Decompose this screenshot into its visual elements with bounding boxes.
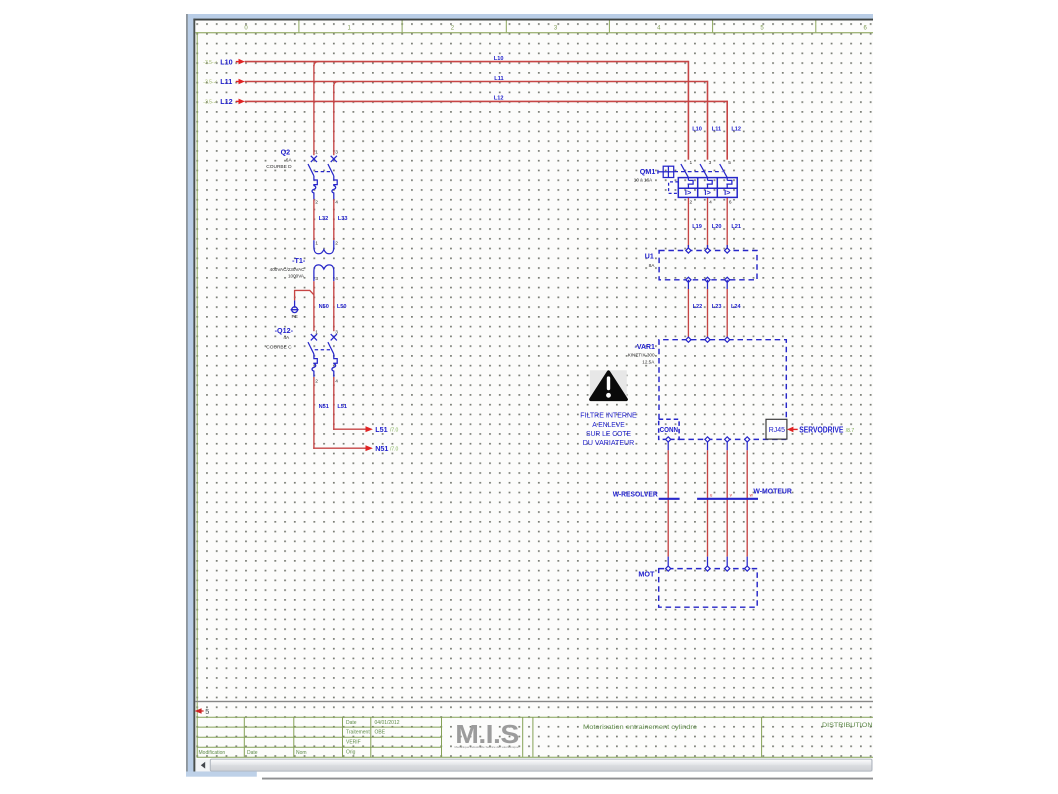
svg-text:4A: 4A bbox=[283, 335, 290, 341]
wire L12 drop to QM1 bbox=[726, 101, 728, 160]
svg-text:Date: Date bbox=[346, 720, 357, 726]
svg-text:8A: 8A bbox=[649, 263, 656, 269]
svg-text:L33: L33 bbox=[338, 216, 348, 222]
svg-text:4: 4 bbox=[335, 379, 338, 385]
motor circuit breaker QM1 bbox=[634, 160, 737, 206]
svg-text:-T1-: -T1- bbox=[292, 256, 306, 265]
svg-text:400VAC/230VAC: 400VAC/230VAC bbox=[270, 267, 305, 272]
svg-text:L51: L51 bbox=[375, 425, 387, 434]
M.I.S logo bbox=[455, 721, 520, 749]
svg-text:2: 2 bbox=[315, 379, 318, 385]
svg-text:1: 1 bbox=[690, 160, 693, 166]
svg-text:A ENLEVE: A ENLEVE bbox=[592, 420, 625, 429]
wire L23 bbox=[707, 280, 709, 289]
svg-text:L12: L12 bbox=[731, 126, 741, 132]
svg-text:4: 4 bbox=[709, 200, 712, 206]
svg-text:4: 4 bbox=[335, 276, 338, 282]
svg-text:I>: I> bbox=[685, 188, 692, 197]
section marker arrow 5 bbox=[195, 707, 210, 716]
svg-text:COURBE D: COURBE D bbox=[266, 164, 292, 170]
svg-text:L21: L21 bbox=[731, 224, 741, 230]
svg-text:Nom: Nom bbox=[296, 750, 307, 756]
svg-text:L11: L11 bbox=[712, 126, 721, 132]
svg-text:-3.5-✓: -3.5-✓ bbox=[203, 60, 217, 66]
svg-text:Traitement: Traitement bbox=[346, 730, 370, 736]
ground PE bbox=[291, 300, 299, 320]
svg-text:6A: 6A bbox=[286, 157, 293, 163]
wire motor U bbox=[708, 441, 713, 566]
wire L24 bbox=[726, 280, 728, 289]
svg-text:W-RESOLVER: W-RESOLVER bbox=[613, 490, 659, 499]
wire resolver feed bbox=[667, 442, 669, 566]
wire Q2 pole1 top bbox=[313, 65, 315, 155]
svg-text:1: 1 bbox=[315, 150, 318, 156]
svg-text:OBE: OBE bbox=[375, 730, 386, 736]
svg-text:5: 5 bbox=[205, 707, 209, 716]
wire Q2 pole2 top bbox=[333, 85, 335, 155]
wire L22 bbox=[687, 280, 689, 289]
svg-text:L11: L11 bbox=[494, 76, 503, 82]
wire L21 bbox=[726, 198, 728, 248]
wire L33 bbox=[333, 199, 335, 240]
svg-text:L24: L24 bbox=[731, 304, 742, 310]
wire L50 bbox=[333, 281, 335, 331]
wire L51 out bbox=[333, 425, 398, 434]
svg-text:QM1: QM1 bbox=[640, 167, 656, 176]
svg-text:/8.7: /8.7 bbox=[846, 428, 855, 434]
svg-text:2: 2 bbox=[315, 199, 318, 205]
servo drive VAR1 bbox=[628, 337, 787, 439]
svg-text:Motorisation entrainement cyli: Motorisation entrainement cylindre bbox=[583, 725, 698, 731]
svg-text:VERIF: VERIF bbox=[346, 740, 361, 746]
svg-text:L50: L50 bbox=[337, 304, 347, 310]
wire branch L11 to Q2 bbox=[334, 82, 339, 87]
svg-text:L10: L10 bbox=[692, 126, 702, 132]
transformer T1 bbox=[270, 240, 339, 282]
wire N51 bbox=[313, 377, 315, 449]
cable W-RESOLVER bbox=[613, 490, 680, 499]
svg-text:-3.5-✓: -3.5-✓ bbox=[203, 80, 217, 86]
cable W-MOTEUR bbox=[697, 486, 792, 498]
svg-text:Modification: Modification bbox=[199, 750, 226, 756]
breaker Q2 bbox=[266, 148, 338, 206]
svg-text:Mecanique Industrielle Servi: Mecanique Industrielle Service de l elec… bbox=[455, 745, 519, 749]
svg-text:-VAR1: -VAR1 bbox=[635, 342, 655, 351]
svg-text:L11: L11 bbox=[220, 77, 232, 86]
breaker Q12 bbox=[266, 326, 338, 385]
svg-text:DISTRIBUTION: DISTRIBUTION bbox=[822, 722, 873, 729]
svg-text:L19: L19 bbox=[692, 224, 702, 230]
node SERVODRIVE bbox=[787, 425, 854, 434]
svg-text:5: 5 bbox=[728, 160, 731, 166]
wire L20 bbox=[707, 198, 709, 248]
wire motor V bbox=[727, 441, 732, 566]
connector RJ45 bbox=[766, 419, 787, 439]
node L10 bus bbox=[203, 56, 688, 66]
svg-text:N51: N51 bbox=[375, 444, 388, 453]
svg-text:N50: N50 bbox=[319, 304, 329, 310]
wire L10 drop to QM1 bbox=[687, 61, 689, 160]
svg-text:DU VARIATEUR: DU VARIATEUR bbox=[583, 438, 635, 447]
svg-text:N51: N51 bbox=[319, 404, 329, 410]
svg-text:1000VA: 1000VA bbox=[288, 273, 305, 278]
wire L11 drop to QM1 bbox=[707, 81, 709, 160]
svg-text:10 à 16A: 10 à 16A bbox=[634, 178, 653, 183]
svg-text:6: 6 bbox=[729, 200, 732, 206]
motor MOT bbox=[638, 566, 757, 607]
svg-text:Date: Date bbox=[247, 750, 258, 756]
svg-text:U1: U1 bbox=[645, 254, 654, 261]
svg-text:2: 2 bbox=[335, 241, 338, 247]
svg-text:L12: L12 bbox=[494, 96, 504, 102]
svg-text:12.5A: 12.5A bbox=[642, 360, 655, 365]
wire N50 bbox=[313, 281, 315, 331]
svg-text:L22: L22 bbox=[693, 304, 703, 310]
wire motor W bbox=[747, 441, 753, 566]
ruler band bbox=[195, 21, 873, 34]
wire L32 bbox=[313, 199, 315, 240]
node L12 bus bbox=[203, 96, 727, 107]
svg-text:3: 3 bbox=[315, 276, 318, 282]
svg-text:KINETIX 300: KINETIX 300 bbox=[628, 352, 655, 357]
sheet inner bottom line bbox=[195, 701, 873, 702]
svg-text:-Q12-: -Q12- bbox=[275, 326, 294, 335]
svg-text:L51: L51 bbox=[337, 404, 347, 410]
warning note text bbox=[580, 411, 637, 447]
svg-text:L10: L10 bbox=[220, 57, 232, 66]
wire N51 out bbox=[313, 444, 398, 453]
svg-text:04/01/2012: 04/01/2012 bbox=[375, 720, 400, 726]
svg-text:I>: I> bbox=[724, 188, 731, 197]
svg-text:1: 1 bbox=[315, 241, 318, 247]
svg-text:-3.5-✓: -3.5-✓ bbox=[203, 100, 217, 106]
svg-text:/7.0: /7.0 bbox=[390, 428, 399, 434]
svg-text:CONN: CONN bbox=[660, 427, 678, 434]
svg-text:SERVODRIVE: SERVODRIVE bbox=[799, 425, 844, 434]
svg-text:RJ45: RJ45 bbox=[769, 425, 785, 434]
svg-text:/7.0: /7.0 bbox=[390, 447, 399, 453]
svg-text:2: 2 bbox=[690, 200, 693, 206]
svg-text:L20: L20 bbox=[712, 224, 722, 230]
svg-text:L32: L32 bbox=[319, 216, 329, 222]
svg-text:3: 3 bbox=[335, 150, 338, 156]
svg-text:MOT: MOT bbox=[638, 570, 654, 579]
title block bbox=[197, 717, 873, 757]
connector CONN bbox=[659, 419, 679, 442]
svg-text:L23: L23 bbox=[712, 304, 722, 310]
warning sign bbox=[590, 370, 627, 401]
svg-text:SUR LE COTE: SUR LE COTE bbox=[586, 429, 631, 438]
svg-text:W-MOTEUR: W-MOTEUR bbox=[753, 486, 792, 495]
svg-text:Orig: Orig bbox=[346, 750, 356, 756]
wire L19 bbox=[687, 198, 689, 248]
svg-text:I>: I> bbox=[704, 188, 711, 197]
wire to PE bbox=[295, 290, 314, 300]
svg-text:PE: PE bbox=[291, 314, 297, 320]
wire L51 bbox=[333, 377, 335, 430]
svg-text:L10: L10 bbox=[494, 56, 504, 62]
line filter U1 bbox=[645, 245, 757, 282]
wire branch L10 to Q2 bbox=[314, 62, 319, 67]
sheet left border bbox=[197, 32, 198, 758]
svg-text:3: 3 bbox=[709, 160, 712, 166]
node L11 bus bbox=[203, 76, 707, 86]
svg-text:Q2: Q2 bbox=[281, 148, 291, 157]
svg-text:L12: L12 bbox=[220, 97, 232, 106]
svg-text:FILTRE INTERNE: FILTRE INTERNE bbox=[580, 411, 637, 420]
svg-text:4: 4 bbox=[335, 199, 338, 205]
svg-text:COURBE C: COURBE C bbox=[266, 344, 292, 350]
scrollbar bbox=[186, 759, 873, 780]
VAR1 bottom diamonds for motor wires bbox=[705, 437, 750, 442]
